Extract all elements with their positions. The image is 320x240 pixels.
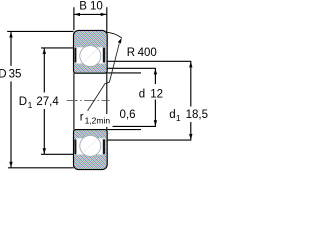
dimension D line upper segment: [10, 32, 12, 66]
bore edge extension bottom: [107, 129, 141, 131]
dimension D1 line lower segment: [43, 109, 45, 154]
svg-text:400: 400: [138, 47, 157, 59]
svg-text:35: 35: [9, 68, 22, 80]
svg-text:1: 1: [176, 113, 181, 123]
dimension d1 arrow up: [189, 62, 192, 68]
R400 leader arrowhead: [118, 38, 122, 44]
dimension D extension bottom: [8, 167, 74, 169]
svg-text:d: d: [169, 109, 175, 121]
dimension d arrow down: [154, 120, 157, 126]
label B 10: [79, 0, 102, 12]
bore edge extension top: [107, 72, 141, 74]
R400 leader line: [88, 43, 120, 111]
dimension B extension right: [106, 7, 108, 33]
dimension D line lower segment: [10, 81, 12, 167]
upper ring section: [74, 30, 108, 73]
dimension D arrow down: [9, 162, 12, 168]
dimension d line lower segment: [154, 100, 156, 127]
dimension d line upper segment: [154, 69, 156, 85]
d extension bottom: [105, 125, 156, 127]
dimension B line: [74, 13, 107, 15]
d extension top: [107, 67, 156, 69]
upper cavity: [76, 47, 106, 63]
dimension D arrow up: [9, 32, 12, 38]
lower cavity: [76, 138, 106, 154]
dimension D extension top: [7, 30, 73, 32]
dimension B arrow left: [74, 13, 80, 16]
upper ball: [80, 46, 101, 67]
svg-text:1: 1: [28, 100, 33, 110]
label D 35: [0, 68, 21, 80]
dimension B extension left: [73, 7, 75, 30]
d1 extension bottom: [107, 139, 192, 141]
upper right shield: [103, 48, 105, 63]
dimension d arrow up: [154, 69, 157, 75]
lower ring section: [74, 130, 108, 170]
label 0,6: [120, 109, 136, 121]
dimension D1 extension top: [41, 47, 74, 49]
svg-text:B: B: [79, 0, 87, 12]
svg-text:10: 10: [90, 0, 103, 12]
dimension B arrow right: [101, 13, 107, 16]
svg-text:r: r: [80, 112, 84, 124]
svg-text:1,2min: 1,2min: [85, 116, 111, 126]
svg-text:D: D: [19, 96, 27, 108]
centerline axis: [67, 99, 110, 101]
svg-text:27,4: 27,4: [36, 96, 59, 108]
svg-text:D: D: [0, 68, 7, 80]
lower right shield: [103, 139, 105, 154]
svg-text:R: R: [127, 47, 135, 59]
label r 1,2min: [80, 112, 111, 126]
label d1 18,5: [169, 109, 208, 123]
upper left shield: [75, 48, 77, 63]
lower ball: [80, 135, 101, 156]
label R 400: [127, 47, 157, 59]
d1 extension top: [107, 60, 192, 62]
svg-text:12: 12: [150, 89, 163, 101]
label r 1,2min knockout: [97, 114, 113, 127]
label d 12: [139, 89, 163, 101]
svg-text:d: d: [139, 89, 145, 101]
lower left shield: [75, 140, 77, 155]
label D1 27,4: [19, 96, 60, 110]
dimension d1 line upper segment: [190, 62, 192, 107]
dimension d1 arrow down: [189, 134, 192, 140]
dimension D1 extension bottom: [41, 153, 74, 155]
dimension d1 line lower segment: [190, 122, 192, 140]
crown arc extension R400: [106, 32, 122, 38]
svg-text:18,5: 18,5: [186, 109, 208, 121]
bore line left: [73, 73, 75, 129]
bore line right: [106, 73, 108, 129]
dimension D1 arrow up: [43, 48, 46, 54]
svg-text:0,6: 0,6: [120, 109, 136, 121]
dimension D1 line upper segment: [43, 48, 45, 92]
dimension D1 arrow down: [43, 148, 46, 154]
